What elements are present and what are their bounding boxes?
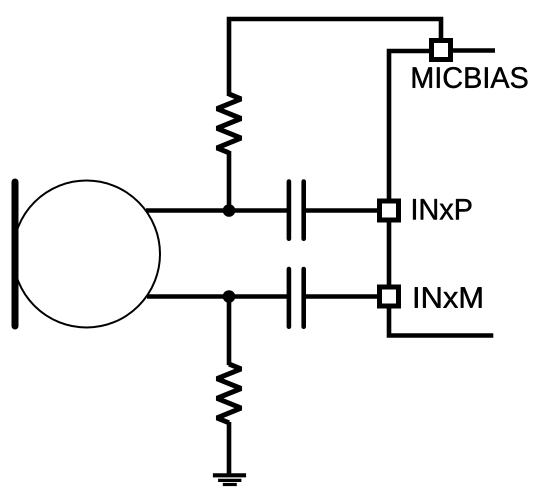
- resistor R1 (MICBIAS pull-up): [217, 94, 241, 153]
- capacitor C2 plates: [289, 269, 304, 327]
- terminal INxM pin square: [380, 287, 399, 306]
- label INxM: [415, 287, 482, 307]
- microphone terminal bar: [12, 182, 19, 326]
- wire: node B down to R2: [227, 297, 232, 366]
- wire: top bias rail from R1 up, across, and down to MICBIAS pin: [229, 19, 441, 96]
- microphone body circle: [13, 181, 160, 328]
- capacitor C1 plates: [289, 182, 304, 239]
- wire: C2 to INxM pin: [304, 294, 380, 299]
- wire: mic negative output to C2: [147, 294, 289, 299]
- terminal MICBIAS pin square: [432, 41, 451, 60]
- wire: INxM pin down and right to edge: [389, 303, 493, 336]
- wire: C1 to INxP pin: [304, 208, 380, 213]
- label INxP: [413, 199, 471, 219]
- wire: MICBIAS pin stub to right edge: [449, 48, 495, 53]
- junction node A: [223, 204, 236, 217]
- wire: MICBIAS branch left and down to INxP pin: [389, 51, 433, 204]
- wire: R2 bottom lead to ground: [227, 422, 232, 475]
- ground: [213, 475, 246, 484]
- wire: R1 bottom lead down to node A: [227, 151, 232, 212]
- resistor R2 (bias return to ground): [217, 364, 241, 423]
- wire: mic positive output to C1: [146, 208, 289, 213]
- wire: INxP pin to INxM pin vertical: [387, 217, 392, 290]
- label MICBIAS: [413, 67, 528, 88]
- terminal INxP pin square: [380, 201, 399, 220]
- junction node B: [223, 290, 236, 303]
